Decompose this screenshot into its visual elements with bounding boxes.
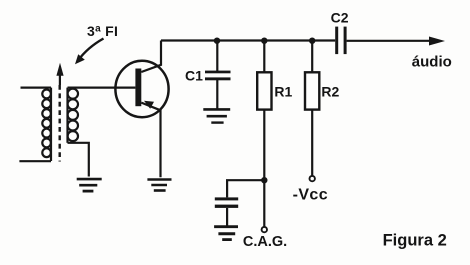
svg-text:áudio: áudio: [412, 53, 452, 70]
svg-text:C.A.G.: C.A.G.: [243, 234, 287, 250]
svg-text:-Vcc: -Vcc: [293, 187, 328, 204]
svg-text:R2: R2: [321, 84, 339, 100]
svg-text:C2: C2: [331, 10, 349, 26]
svg-text:3a FI: 3a FI: [87, 23, 118, 39]
svg-text:Figura 2: Figura 2: [383, 232, 447, 250]
svg-text:C1: C1: [185, 68, 203, 84]
svg-text:R1: R1: [274, 84, 292, 100]
